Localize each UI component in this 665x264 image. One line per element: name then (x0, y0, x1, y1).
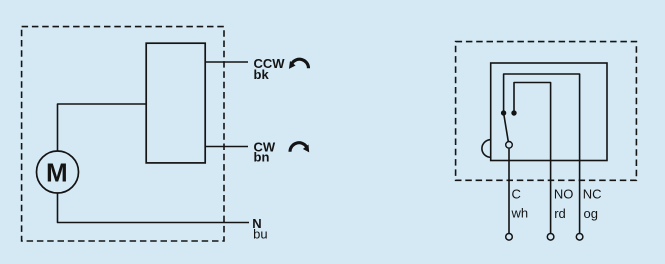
svg-text:bk: bk (254, 67, 270, 82)
lever (504, 113, 509, 142)
arrow CW (290, 143, 309, 153)
contact NO (511, 110, 516, 115)
svg-text:M: M (46, 157, 68, 187)
svg-text:bn: bn (254, 150, 270, 165)
arrow CCW (289, 59, 309, 69)
motor M1 (37, 151, 79, 193)
wire N (58, 193, 250, 223)
control box (146, 43, 205, 163)
svg-text:og: og (584, 206, 598, 221)
svg-text:rd: rd (554, 206, 566, 221)
svg-text:NO: NO (554, 187, 574, 202)
svg-text:C: C (512, 187, 521, 202)
terminal NO (547, 234, 554, 241)
common pivot (506, 142, 513, 149)
dashed enclosure (switch) (456, 42, 637, 181)
switch body S1 (491, 63, 607, 161)
wire CW (205, 146, 248, 148)
svg-text:bu: bu (253, 226, 267, 241)
dashed enclosure (actuator) (22, 27, 224, 241)
terminal NC (576, 234, 583, 241)
wire C (508, 148, 510, 233)
contact NC (501, 110, 506, 115)
wire NC (504, 74, 580, 233)
wire NO (514, 83, 551, 234)
wire motor-to-box (58, 104, 147, 151)
svg-text:wh: wh (511, 206, 529, 221)
terminal C (506, 234, 513, 241)
wire CCW (205, 61, 248, 63)
svg-text:NC: NC (583, 187, 602, 202)
plunger (482, 140, 491, 158)
